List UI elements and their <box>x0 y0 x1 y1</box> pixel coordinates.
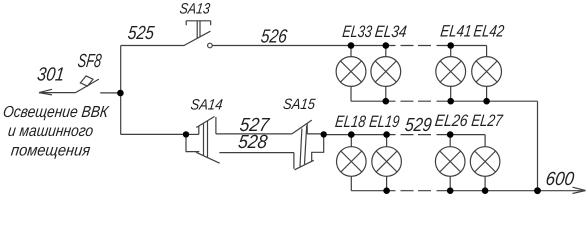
svg-text:EL19: EL19 <box>368 112 400 131</box>
lamp EL18 <box>337 135 367 191</box>
svg-text:Освещение ВВК: Освещение ВВК <box>2 103 111 121</box>
svg-text:301: 301 <box>36 65 66 86</box>
wire 600 <box>538 190 586 192</box>
wire top rail dashes <box>401 45 432 47</box>
svg-text:528: 528 <box>237 132 269 153</box>
lamp EL26 <box>435 135 465 191</box>
switch SA13 <box>184 21 212 48</box>
junction EL34 bottom <box>383 98 390 105</box>
junction EL41 top <box>447 42 454 49</box>
wire bus to SA14 <box>121 133 186 135</box>
junction SA15 output <box>321 131 327 137</box>
junction EL19 top <box>383 131 390 138</box>
svg-text:EL33: EL33 <box>341 22 373 41</box>
svg-text:600: 600 <box>544 169 575 190</box>
svg-text:529: 529 <box>404 115 433 136</box>
svg-text:SA13: SA13 <box>179 1 212 18</box>
junction EL18 top <box>348 131 355 138</box>
svg-text:526: 526 <box>260 27 289 48</box>
junction EL19 bottom <box>383 187 390 194</box>
wire top rail right <box>437 45 487 47</box>
junction EL34 top <box>383 42 390 49</box>
junction SA14 input <box>183 131 189 137</box>
svg-text:EL41: EL41 <box>439 22 472 41</box>
svg-text:525: 525 <box>127 23 156 44</box>
wire SF8 lead right <box>100 92 120 94</box>
svg-text:EL34: EL34 <box>374 22 408 41</box>
svg-text:помещения: помещения <box>10 141 92 159</box>
lamp EL19 <box>372 135 402 191</box>
wire 529 <box>324 134 396 136</box>
svg-text:EL27: EL27 <box>470 111 504 130</box>
lamp EL34 <box>371 46 401 102</box>
wire 525 <box>121 45 185 47</box>
wire bottom row top rail dashes <box>401 134 432 136</box>
wire 526 <box>212 45 395 47</box>
wire top row bottom rail <box>351 100 396 102</box>
circuit breaker SF8 <box>39 76 99 95</box>
svg-text:EL18: EL18 <box>334 112 367 131</box>
junction SF8 tap <box>117 90 124 97</box>
svg-text:SA15: SA15 <box>282 96 316 113</box>
junction 600 <box>534 187 541 194</box>
switch SA14 <box>186 117 220 164</box>
lamp EL27 <box>470 135 500 191</box>
junction EL26 top <box>447 131 454 138</box>
svg-text:EL42: EL42 <box>473 22 506 41</box>
junction EL41 bottom <box>447 98 454 105</box>
wire bottom row bottom rail <box>351 190 395 192</box>
wire bottom row top rail right <box>437 134 486 136</box>
junction EL26 bottom <box>447 187 454 194</box>
wire right drop <box>537 101 539 191</box>
svg-text:EL26: EL26 <box>434 111 470 130</box>
lamp EL42 <box>472 46 502 102</box>
lamp EL33 <box>336 46 366 102</box>
svg-text:SF8: SF8 <box>76 51 102 72</box>
svg-text:и машинного: и машинного <box>7 122 94 140</box>
junction EL33 top <box>348 42 355 49</box>
lamp EL41 <box>436 46 466 102</box>
junction EL42 bottom <box>483 98 490 105</box>
svg-text:SA14: SA14 <box>190 97 224 114</box>
wire bus vertical <box>120 46 122 135</box>
junction EL27 bottom <box>482 187 489 194</box>
wire 528 <box>219 152 294 154</box>
wire 527 <box>216 133 292 135</box>
switch SA15 <box>292 120 324 170</box>
